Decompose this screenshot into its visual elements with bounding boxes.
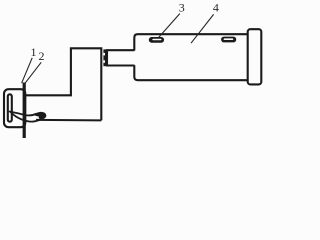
- vent slot left (item 3): [149, 37, 164, 43]
- motor body upper outline: [134, 34, 247, 50]
- vent slot right: [221, 37, 236, 43]
- svg-text:3: 3: [179, 1, 185, 15]
- svg-text:4: 4: [213, 1, 219, 15]
- vent slot right slit: [224, 38, 234, 40]
- leader line 1: [22, 58, 33, 83]
- shaft coupling bar: [103, 49, 106, 66]
- hook wire upper curve: [10, 112, 37, 116]
- motor body lower outline: [134, 65, 247, 80]
- end cap: [248, 29, 262, 84]
- coupling notch lower: [103, 60, 105, 63]
- fixture outer body (left clamp block): [4, 89, 25, 127]
- leader line 4: [191, 14, 214, 43]
- leader line 3: [159, 14, 180, 38]
- leader line 2: [24, 62, 41, 84]
- svg-text:2: 2: [39, 49, 45, 63]
- vent slot left slit: [152, 39, 161, 41]
- coupling notch upper: [103, 53, 105, 56]
- bracket arm bottom edge: [36, 119, 101, 122]
- mounting plate (vertical bar): [23, 83, 26, 139]
- fixture inner slot: [8, 94, 12, 121]
- hook wire lower curve: [11, 113, 40, 122]
- motor neck (reduced step): [107, 50, 135, 65]
- svg-text:1: 1: [31, 45, 37, 59]
- hook curled tip (wave crest): [33, 112, 46, 119]
- L-shaped bracket arm: [26, 48, 102, 120]
